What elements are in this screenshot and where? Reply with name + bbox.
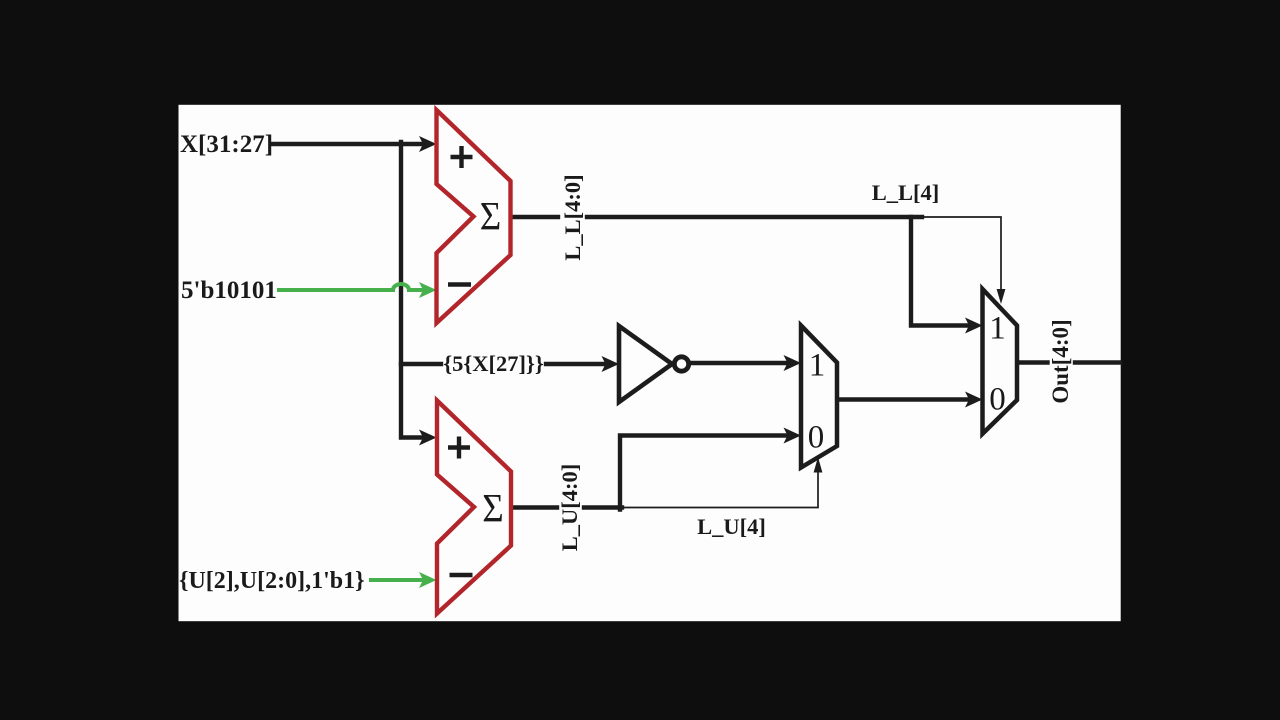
svg-text:L_U[4]: L_U[4] <box>697 514 766 539</box>
svg-text:1: 1 <box>809 348 826 384</box>
svg-text:{U[2],U[2:0],1'b1}: {U[2],U[2:0],1'b1} <box>179 568 365 594</box>
svg-text:0: 0 <box>989 382 1006 418</box>
svg-text:1: 1 <box>989 311 1006 347</box>
svg-text:Σ: Σ <box>482 486 504 531</box>
svg-text:L_U[4:0]: L_U[4:0] <box>557 464 582 551</box>
svg-text:0: 0 <box>808 420 825 456</box>
svg-text:L_L[4]: L_L[4] <box>872 180 940 205</box>
svg-text:Σ: Σ <box>480 194 502 239</box>
svg-text:5'b10101: 5'b10101 <box>181 277 277 304</box>
svg-text:{5{X[27]}}: {5{X[27]}} <box>443 351 544 376</box>
svg-text:X[31:27]: X[31:27] <box>180 131 273 158</box>
svg-text:L_L[4:0]: L_L[4:0] <box>560 174 585 260</box>
svg-text:Out[4:0]: Out[4:0] <box>1048 319 1073 403</box>
